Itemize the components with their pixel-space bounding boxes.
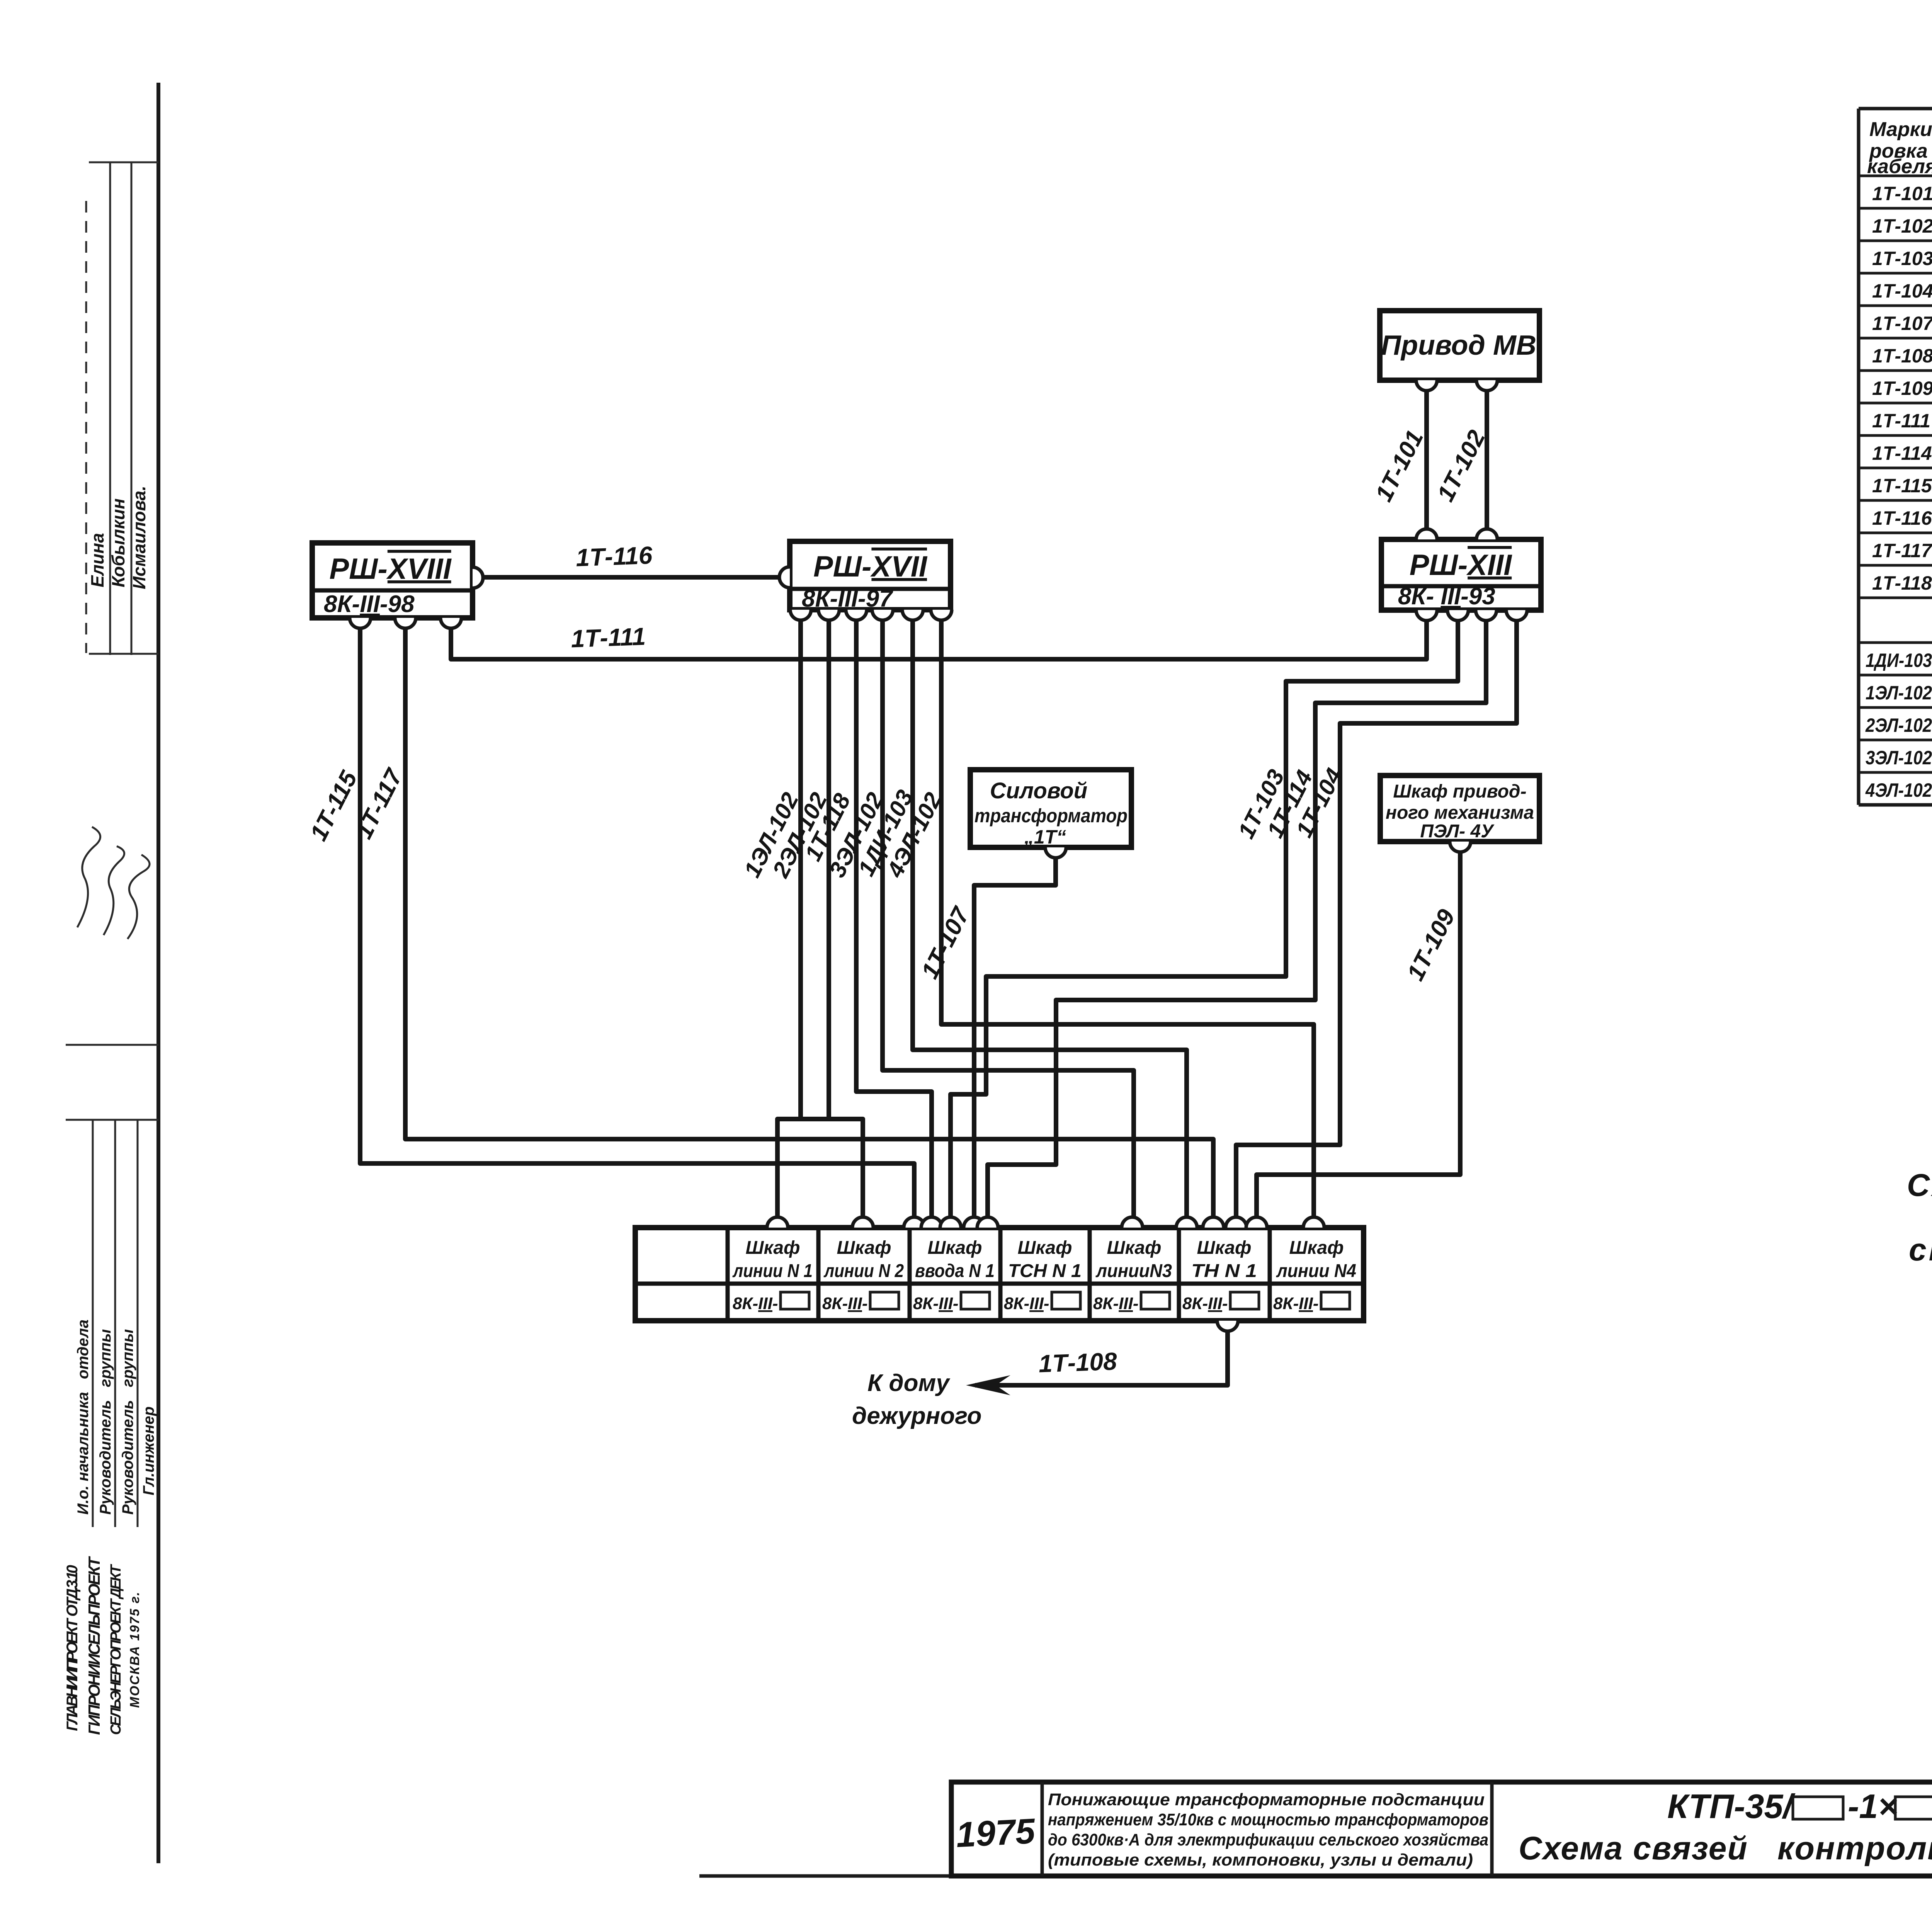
svg-text:линии N 2: линии N 2: [823, 1261, 904, 1281]
wire 1Т-102: [1485, 386, 1489, 534]
svg-text:Елина: Елина: [87, 533, 107, 587]
table row 1Т-109: [1872, 376, 1932, 399]
cabinet Шкаф ТСН N1: [1004, 1238, 1082, 1313]
stamp table dashed line: [85, 201, 87, 653]
svg-text:ввода N 1: ввода N 1: [915, 1261, 995, 1281]
svg-text:РШ-XVIII: РШ-XVIII: [329, 553, 452, 585]
table row 1Т-101: [1872, 182, 1932, 204]
stamp org block: [64, 1556, 142, 1735]
label 1Т-115: [305, 766, 362, 845]
name Кобылкин: [108, 498, 128, 587]
table row 1Т-115: [1872, 474, 1932, 497]
svg-text:ТН N 1: ТН N 1: [1191, 1261, 1257, 1281]
svg-text:1Т-108: 1Т-108: [1038, 1347, 1118, 1378]
label 1Т-117: [350, 764, 408, 843]
title cell name КТП-35: [1519, 1787, 1932, 1866]
label 1Т-109: [1402, 905, 1460, 985]
svg-text:2ЭЛ-102: 2ЭЛ-102: [1865, 714, 1932, 736]
table row 1ЭЛ-102: [1866, 681, 1932, 704]
label 2ЭЛ-102: [767, 788, 832, 882]
svg-text:1Т-103: 1Т-103: [1872, 248, 1932, 269]
svg-text:Шкаф: Шкаф: [1017, 1238, 1072, 1258]
svg-text:1Т-114: 1Т-114: [1872, 442, 1932, 464]
name Елина: [87, 533, 107, 587]
table row 1Т-103: [1872, 247, 1932, 269]
table row 2ЭЛ-102: [1865, 713, 1932, 736]
table row 1Т-117: [1872, 539, 1932, 561]
wire 1Т-104: [1236, 615, 1517, 1222]
cabinet Шкаф ТН N1: [1182, 1238, 1259, 1313]
wire 1ЭЛ-102 vertical: [798, 615, 803, 1119]
cabinet Шкаф линии N1: [732, 1238, 813, 1313]
label 1ДИ-103: [853, 786, 918, 880]
svg-text:ного механизма: ного механизма: [1386, 803, 1534, 823]
svg-text:8К-III-: 8К-III-: [733, 1294, 778, 1313]
table row 1ДИ-103: [1866, 649, 1932, 671]
svg-text:1Т-104: 1Т-104: [1872, 280, 1932, 302]
box Силовой трансформатор 1Т: [970, 770, 1131, 848]
label 1Т-108: [1038, 1347, 1118, 1378]
stamp table line b: [131, 162, 133, 655]
label 1Т-111: [570, 622, 646, 653]
ports РШ-XIII bottom: [1416, 610, 1527, 621]
svg-text:Привод МВ: Привод МВ: [1381, 330, 1536, 361]
wire 4ЭЛ-102: [941, 615, 1314, 1222]
wire 1Т-118: [856, 615, 932, 1222]
table row 1Т-104: [1872, 279, 1932, 302]
svg-text:КТП-35/: КТП-35/: [1667, 1787, 1796, 1825]
label 4ЭЛ-102: [882, 788, 946, 882]
cable table frame: [1859, 109, 1932, 805]
svg-text:Шкаф: Шкаф: [1197, 1238, 1251, 1258]
wire 1Т-108 with arrow: [966, 1325, 1228, 1395]
box Шкаф приводного механизма ПЭЛ-4У: [1380, 776, 1539, 842]
svg-text:„1Т“: „1Т“: [1024, 826, 1066, 848]
stamp table line a: [109, 162, 111, 655]
port трансформатор bottom: [1045, 847, 1066, 858]
svg-text:8К- III-93: 8К- III-93: [1398, 583, 1495, 610]
svg-text:Гл.инженер: Гл.инженер: [140, 1406, 157, 1495]
svg-text:1Т-116: 1Т-116: [575, 541, 653, 572]
svg-text:8К-III-98: 8К-III-98: [324, 591, 415, 617]
stamp divider y2704: [66, 1044, 158, 1046]
stamp table top tick: [89, 162, 158, 163]
signature squiggle 1: [77, 827, 100, 927]
svg-text:Схема связей силовыми ка: Схема связей силовыми кабелями: [1907, 1168, 1932, 1203]
cabinets row box: [635, 1228, 1364, 1321]
svg-text:контрольными кабелями.: контрольными кабелями.: [1777, 1830, 1932, 1866]
label 1Т-101: [1370, 426, 1429, 506]
port cabinet ТН N1 bottom: [1217, 1321, 1238, 1331]
label 1Т-114: [1262, 766, 1318, 842]
svg-text:1Т-107: 1Т-107: [1872, 313, 1932, 334]
box Привод МВ: [1380, 311, 1539, 380]
svg-text:И.о. начальника отдела: И.о. начальника отдела: [75, 1320, 92, 1515]
svg-text:1Т-107: 1Т-107: [916, 902, 975, 983]
table row 1Т-108: [1872, 344, 1932, 367]
svg-text:8К-III-: 8К-III-: [1093, 1294, 1139, 1313]
svg-text:1Т-108: 1Т-108: [1872, 345, 1932, 367]
label 1Т-102: [1432, 426, 1490, 506]
svg-text:1Т-109: 1Т-109: [1402, 905, 1460, 985]
svg-text:-1×: -1×: [1848, 1787, 1898, 1825]
title Гл.инженер: [140, 1406, 157, 1495]
signature squiggle 2: [104, 846, 124, 935]
svg-text:1Т-115: 1Т-115: [1872, 475, 1932, 497]
name Исмаилова: [129, 486, 149, 589]
box РШ-XVIII / ВК-III-98: [312, 543, 473, 618]
svg-text:4ЭЛ-102: 4ЭЛ-102: [1865, 779, 1932, 801]
stamp table divider tick: [89, 653, 158, 655]
svg-text:ГЛАВНИИПРОЕКТ ОТД.3.10: ГЛАВНИИПРОЕКТ ОТД.3.10: [64, 1565, 81, 1731]
title cell 1975: [955, 1811, 1037, 1855]
svg-text:линииN3: линииN3: [1095, 1261, 1172, 1281]
table row 3ЭЛ-102: [1866, 746, 1932, 769]
svg-text:линии N 1: линии N 1: [732, 1261, 813, 1281]
title И.о. начальника отдела: [75, 1320, 92, 1515]
table row 1Т-107: [1872, 312, 1932, 334]
cabinet Шкаф ввода N1: [913, 1238, 995, 1313]
wire 1Т-115: [360, 623, 914, 1222]
ports РШ-XIII top: [1416, 529, 1497, 539]
wire 1Т-117: [405, 623, 1213, 1222]
svg-text:1975: 1975: [955, 1811, 1037, 1855]
title cell project description: [1048, 1790, 1488, 1869]
svg-text:Шкаф привод-: Шкаф привод-: [1393, 781, 1526, 802]
ports cabinets top: [767, 1217, 1324, 1228]
svg-text:1Т-111: 1Т-111: [570, 622, 646, 653]
svg-text:Понижающие трансформаторные п: Понижающие трансформаторные подстанции: [1048, 1790, 1485, 1809]
svg-text:Руководитель группы: Руководитель группы: [119, 1329, 136, 1515]
wire 1Т-109: [1257, 847, 1460, 1222]
svg-text:трансформатор: трансформатор: [975, 805, 1128, 827]
svg-text:Шкаф: Шкаф: [745, 1238, 800, 1258]
svg-text:8К-III-: 8К-III-: [822, 1294, 868, 1313]
svg-text:(типовые схемы, компоновки, уз: (типовые схемы, компоновки, узлы и детал…: [1048, 1850, 1473, 1869]
label 1Т-116: [575, 541, 653, 572]
svg-text:Руководитель группы: Руководитель группы: [97, 1329, 114, 1515]
note Схема связей силовыми кабелями: [1907, 1168, 1932, 1267]
table row 1Т-114: [1872, 442, 1932, 464]
wire 1Т-111: [451, 615, 1427, 659]
wire 1Т-114: [988, 615, 1486, 1222]
cabinet Шкаф линии N4: [1273, 1238, 1356, 1313]
box РШ-XVII / ВК-III-97: [790, 541, 951, 612]
wire funnel bar to cabinets N1 N2: [777, 1119, 863, 1222]
label 1ЭЛ-102: [739, 788, 803, 881]
svg-text:1ДИ-103: 1ДИ-103: [1866, 650, 1932, 671]
svg-text:РШ-XVII: РШ-XVII: [813, 550, 928, 583]
svg-text:Исмаилова.: Исмаилова.: [129, 486, 149, 589]
title Руководитель группы 2: [119, 1329, 136, 1515]
svg-text:К дому: К дому: [867, 1370, 951, 1396]
svg-text:1Т-111: 1Т-111: [1872, 410, 1930, 432]
port РШ-XVII left: [779, 567, 790, 588]
title Руководитель группы 1: [97, 1329, 114, 1515]
svg-text:1Т-117: 1Т-117: [1872, 540, 1932, 561]
svg-text:Шкаф: Шкаф: [837, 1238, 891, 1258]
ports Привод МВ bottom: [1416, 380, 1497, 391]
label 1Т-104: [1291, 764, 1347, 842]
table row 4ЭЛ-102: [1865, 778, 1932, 801]
svg-text:кабеля: кабеля: [1867, 155, 1932, 178]
wire 3ЭЛ-102: [883, 615, 1134, 1222]
wire 1Т-107: [974, 852, 1056, 1222]
label 1Т-118: [800, 789, 855, 865]
signature squiggle 3: [128, 855, 150, 939]
svg-text:линии N4: линии N4: [1276, 1261, 1356, 1281]
label К дому дежурного: [852, 1370, 982, 1429]
title block frame: [699, 1782, 1932, 1876]
svg-text:напряжением 35/10кв с мощность: напряжением 35/10кв с мощностью трансфор…: [1048, 1810, 1488, 1829]
svg-text:дежурного: дежурного: [852, 1403, 982, 1429]
svg-text:8К-III-97: 8К-III-97: [802, 585, 893, 612]
svg-text:8К-III-: 8К-III-: [913, 1294, 959, 1313]
svg-text:1Т-102: 1Т-102: [1872, 215, 1932, 237]
label 1Т-107: [916, 902, 975, 983]
svg-text:Шкаф: Шкаф: [927, 1238, 982, 1258]
label 1Т-103: [1233, 765, 1289, 843]
svg-text:1Т-116: 1Т-116: [1872, 507, 1932, 529]
svg-text:1Т-118: 1Т-118: [1872, 572, 1932, 594]
svg-text:Кобылкин: Кобылкин: [108, 498, 128, 587]
svg-text:8К-III-: 8К-III-: [1004, 1294, 1049, 1313]
svg-text:8К-III-: 8К-III-: [1182, 1294, 1228, 1313]
label 3ЭЛ-102: [824, 788, 888, 881]
table row 1Т-102: [1872, 213, 1932, 237]
svg-text:ТСН N 1: ТСН N 1: [1008, 1261, 1082, 1281]
stamp column right border: [156, 83, 160, 1863]
table row 1Т-116: [1872, 507, 1932, 529]
wire 1Т-101: [1424, 386, 1429, 534]
wire 1Т-116: [481, 575, 782, 580]
svg-text:8К-III-: 8К-III-: [1273, 1294, 1319, 1313]
svg-text:РШ-XIII: РШ-XIII: [1410, 549, 1512, 582]
cabinet Шкаф линии N2: [822, 1238, 904, 1313]
table row 1Т-118: [1872, 571, 1932, 594]
wire 1Т-103: [951, 615, 1458, 1222]
svg-text:МОСКВА 1975 г.: МОСКВА 1975 г.: [128, 1592, 142, 1708]
table header Маркировка кабеля: [1867, 118, 1932, 178]
svg-text:1ЭЛ-102: 1ЭЛ-102: [1866, 682, 1932, 704]
svg-text:СЕЛЬЭНЕРГОПРОЕКТ ДЕКТ: СЕЛЬЭНЕРГОПРОЕКТ ДЕКТ: [108, 1564, 124, 1735]
svg-text:см. лист ЭЛ-III-62.: см. лист ЭЛ-III-62.: [1909, 1232, 1932, 1267]
wire 2ЭЛ-102 vertical: [827, 615, 831, 1119]
stamp lower verticals: [93, 1120, 138, 1527]
svg-text:Шкаф: Шкаф: [1107, 1238, 1161, 1258]
stamp divider y2898: [66, 1119, 158, 1121]
svg-text:1Т-102: 1Т-102: [1432, 426, 1490, 506]
box РШ-XIII / ВК-III-93: [1381, 539, 1541, 610]
svg-text:1Т-109: 1Т-109: [1872, 378, 1932, 399]
cabinet Шкаф линии N3: [1093, 1238, 1172, 1313]
svg-text:Шкаф: Шкаф: [1289, 1238, 1344, 1258]
svg-text:ПЭЛ- 4У: ПЭЛ- 4У: [1420, 821, 1495, 842]
svg-text:Схема связей: Схема связей: [1519, 1830, 1748, 1866]
table row 1Т-111: [1872, 409, 1932, 432]
svg-text:Силовой: Силовой: [990, 778, 1088, 803]
svg-text:Марки-: Марки-: [1869, 118, 1932, 141]
ports РШ-XVII bottom: [790, 610, 952, 620]
svg-text:ГИПРОНИИСЕЛЬПРОЕКТ: ГИПРОНИИСЕЛЬПРОЕКТ: [85, 1556, 103, 1735]
svg-text:1Т-101: 1Т-101: [1872, 183, 1932, 204]
ports РШ-XVIII bottom: [350, 618, 461, 628]
wire 1ДИ-103: [913, 615, 1187, 1222]
port ПЭЛ-4У bottom: [1450, 842, 1471, 852]
svg-text:до 6300кв·А для электрификации: до 6300кв·А для электрификации сельского…: [1048, 1830, 1488, 1849]
port РШ-XVIII right: [473, 567, 483, 588]
svg-text:3ЭЛ-102: 3ЭЛ-102: [1866, 747, 1932, 769]
svg-text:1Т-101: 1Т-101: [1370, 426, 1429, 506]
